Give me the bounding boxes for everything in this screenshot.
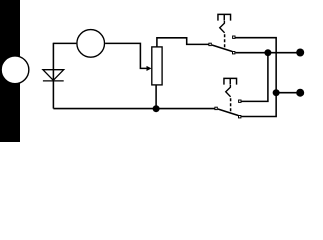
- terminal T2: [296, 89, 304, 97]
- wiper arrow: [147, 66, 152, 71]
- wire junction A down to S2 upper throw: [241, 53, 268, 102]
- junction rail dot: [153, 105, 160, 112]
- diode D1: [43, 70, 64, 81]
- S2 pole contact: [214, 107, 217, 110]
- wire lamp to potentiometer: [105, 43, 147, 68]
- switch S2: [214, 78, 241, 118]
- S1 blade: [212, 45, 232, 52]
- S2 dashed link: [230, 98, 232, 112]
- junction B dot: [273, 89, 280, 96]
- S2 lower throw contact: [238, 115, 241, 118]
- wire S1 lower throw to terminal T1: [235, 52, 297, 54]
- S2 detent: [226, 85, 231, 97]
- S1 detent: [220, 21, 225, 33]
- S1 lower throw contact: [232, 51, 235, 54]
- S2 actuator: [224, 78, 237, 84]
- S1 dashed link: [224, 34, 226, 48]
- wire junction B to terminal T2: [276, 92, 297, 94]
- S1 pole contact: [208, 43, 211, 46]
- left panel bar: [0, 0, 20, 142]
- S2 upper throw contact: [238, 100, 241, 103]
- S1 actuator: [218, 14, 231, 20]
- connector port J1: [1, 56, 29, 84]
- switch S1: [208, 14, 235, 54]
- junction A dot: [264, 49, 271, 56]
- S1 upper throw contact: [232, 36, 235, 39]
- wire R1 top to S1: [157, 38, 209, 47]
- wire left branch vertical: [52, 43, 54, 109]
- resistor R1 body: [152, 47, 162, 85]
- terminal T1: [296, 49, 304, 57]
- S2 blade: [218, 109, 238, 116]
- wire R1 bottom lead: [155, 85, 157, 109]
- wire S1 upper throw to S2 lower throw: [236, 38, 277, 117]
- wire top-left horizontal: [53, 42, 76, 44]
- wire bottom rail: [53, 108, 215, 110]
- lamp G1: [77, 30, 105, 58]
